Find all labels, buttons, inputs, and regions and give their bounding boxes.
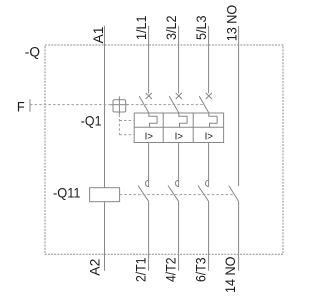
- svg-text:2/T1: 2/T1: [132, 257, 148, 282]
- svg-text:13 NO: 13 NO: [223, 5, 239, 41]
- svg-text:F: F: [17, 98, 25, 114]
- svg-text:5/L3: 5/L3: [193, 15, 209, 40]
- svg-text:14 NO: 14 NO: [222, 257, 238, 293]
- svg-text:I>: I>: [145, 131, 154, 142]
- svg-text:6/T3: 6/T3: [192, 257, 208, 282]
- svg-text:I>: I>: [175, 131, 184, 142]
- svg-text:3/L2: 3/L2: [163, 15, 179, 40]
- svg-text:-Q: -Q: [25, 43, 40, 59]
- svg-text:I>: I>: [205, 131, 214, 142]
- svg-text:4/T2: 4/T2: [162, 257, 178, 282]
- svg-text:A1: A1: [90, 26, 106, 43]
- svg-text:A2: A2: [87, 258, 103, 275]
- svg-text:-Q1: -Q1: [81, 113, 102, 129]
- svg-text:-Q11: -Q11: [53, 185, 81, 201]
- svg-text:1/L1: 1/L1: [133, 15, 149, 40]
